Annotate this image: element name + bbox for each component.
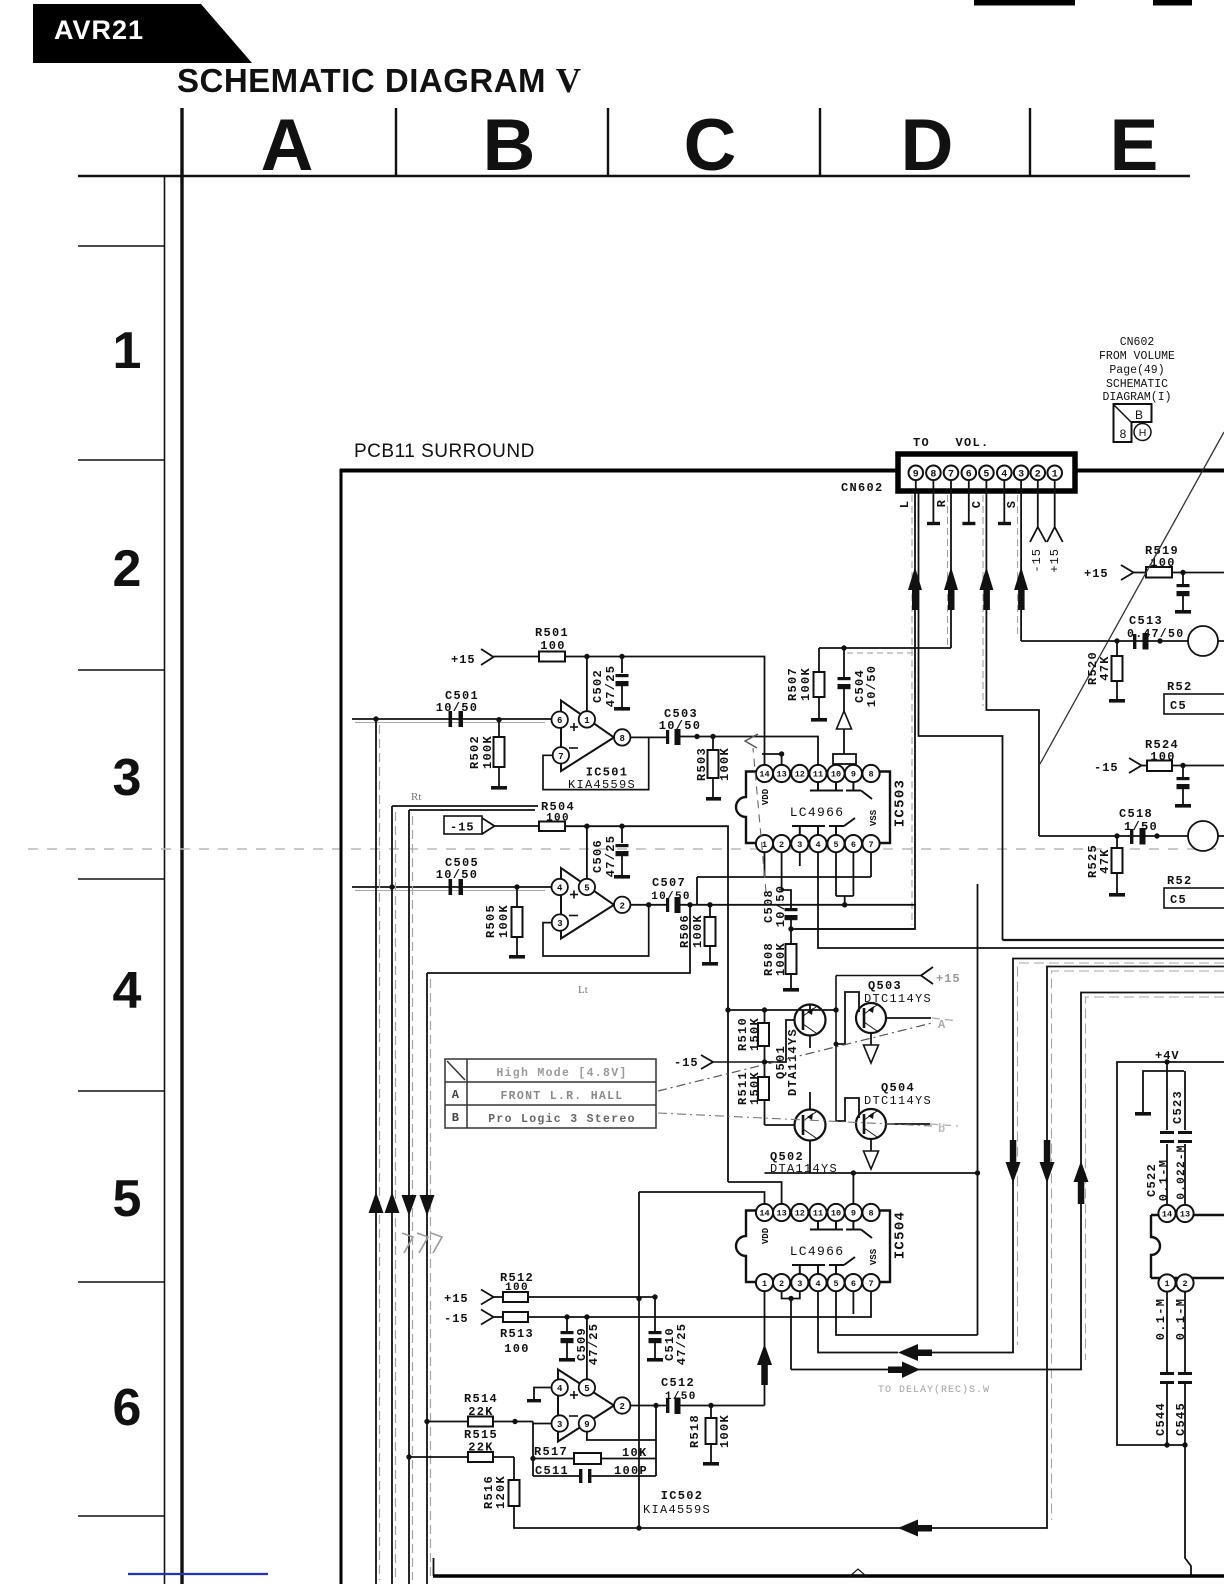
svg-text:100: 100 [1150, 750, 1176, 764]
ground pin 6 [962, 491, 975, 524]
svg-text:IC502: IC502 [661, 1489, 704, 1503]
capacitor C544 [1154, 1292, 1174, 1446]
IC504 body [736, 1211, 890, 1283]
arrow up trunk2 [385, 1192, 400, 1213]
svg-text:10/50: 10/50 [436, 701, 479, 715]
svg-text:-15: -15 [1094, 761, 1119, 775]
pin3 stub [791, 1292, 800, 1299]
transistor Q502 [765, 1092, 826, 1173]
svg-text:100: 100 [540, 639, 566, 653]
feedback box IC501 [543, 737, 649, 789]
resistor R516 [482, 1457, 520, 1509]
IC503 body [736, 772, 890, 844]
feedback box IC501 unit2 [543, 905, 649, 956]
leader open arrowhead [745, 734, 758, 748]
svg-text:C511: C511 [535, 1464, 569, 1478]
-15 feed fork [701, 1055, 713, 1069]
node [619, 654, 624, 659]
svg-text:A: A [452, 1088, 461, 1102]
ghost trunk 2 [395, 812, 397, 1580]
output wire pin8 [630, 736, 666, 738]
svg-text:6: 6 [113, 1379, 142, 1437]
ghost wire R input [355, 890, 545, 892]
resistor R515 [406, 1428, 514, 1462]
node [841, 645, 846, 650]
pin2 jog to W3 [782, 1292, 791, 1370]
wire [494, 1296, 504, 1298]
svg-text:-15: -15 [674, 1056, 699, 1070]
wire pin5 C down [986, 491, 1039, 836]
svg-text:R518: R518 [688, 1414, 702, 1448]
arrow W2 left [898, 1520, 932, 1537]
svg-text:2: 2 [779, 1279, 784, 1289]
svg-text:VSS: VSS [869, 1248, 879, 1265]
node [636, 1296, 641, 1301]
arrow W1 down [1006, 1140, 1021, 1183]
wire C512 to IC504 pin1 [681, 1292, 765, 1406]
row tick 2/3 [78, 669, 164, 671]
svg-text:9: 9 [851, 1209, 856, 1219]
svg-text:8: 8 [868, 1209, 873, 1219]
capacitor C504 [838, 648, 880, 711]
node [788, 1296, 793, 1301]
svg-text:5: 5 [983, 470, 989, 481]
svg-text:11: 11 [813, 1209, 823, 1219]
C520 partial box [1164, 888, 1224, 908]
svg-text:1: 1 [1052, 470, 1058, 481]
svg-text:FROM VOLUME: FROM VOLUME [1099, 350, 1175, 363]
svg-text:14: 14 [759, 770, 769, 780]
node [636, 1525, 641, 1530]
Q503 collector dashes [932, 1018, 958, 1021]
output wire pin2 [630, 1405, 666, 1407]
capacitor C518 [1130, 828, 1146, 845]
signal arrow R [944, 567, 958, 610]
svg-text:6: 6 [966, 470, 972, 481]
svg-text:0.1-M: 0.1-M [1174, 1298, 1188, 1341]
svg-text:Q503: Q503 [868, 979, 902, 993]
capacitor C519 [1175, 766, 1191, 808]
model banner AVR21 [33, 4, 252, 63]
svg-text:AVR21: AVR21 [54, 15, 144, 45]
node [975, 1170, 980, 1175]
svg-text:47K: 47K [1098, 848, 1112, 874]
wire to pin13 [728, 1182, 782, 1204]
svg-text:IC503: IC503 [893, 779, 909, 828]
svg-text:C502: C502 [591, 669, 605, 703]
pin5 pin6 tie [836, 852, 853, 905]
svg-text:47/25: 47/25 [587, 1323, 601, 1366]
svg-text:R514: R514 [464, 1392, 498, 1406]
node [1180, 570, 1185, 575]
node [646, 902, 651, 907]
svg-text:PCB11 SURROUND: PCB11 SURROUND [354, 441, 535, 462]
capacitor C510 [647, 1297, 689, 1365]
resistor R505 [484, 884, 525, 958]
svg-text:3: 3 [557, 1420, 562, 1430]
svg-text:6: 6 [557, 716, 562, 726]
IC503 bottom pins [756, 835, 880, 852]
capacitor C509 [559, 1317, 601, 1365]
svg-text:7: 7 [558, 752, 563, 762]
resistor R507 [786, 648, 827, 722]
+15 fork [921, 967, 933, 984]
arrow W2 down [1040, 1140, 1055, 1183]
svg-text:9: 9 [913, 470, 919, 481]
-15 fork [481, 1310, 494, 1325]
svg-text:12: 12 [795, 1209, 805, 1219]
svg-text:22K: 22K [468, 1441, 494, 1455]
wire right trunk [977, 884, 979, 1335]
connector pins 9..1 [909, 466, 1062, 481]
vertical trunk wire 2 [391, 806, 393, 1584]
svg-text:150K: 150K [748, 1071, 762, 1105]
resistor R518 [688, 1406, 732, 1466]
Q504 collector dashes [930, 1124, 958, 1126]
svg-text:VDD: VDD [761, 788, 771, 805]
svg-text:100K: 100K [691, 914, 705, 948]
op-amp IC501 unit1 [552, 701, 631, 772]
svg-text:R502: R502 [468, 735, 482, 769]
arrow W1 left [898, 1344, 932, 1361]
svg-text:8: 8 [619, 734, 624, 744]
blue pen mark bottom left [128, 1573, 268, 1575]
pin1 riser [586, 657, 588, 712]
+15 wire [836, 975, 921, 977]
Q504 emitter arrow [864, 1151, 879, 1169]
arrow down trunk4 [420, 1195, 435, 1216]
transistor Q504 [836, 1098, 930, 1151]
svg-text:5: 5 [833, 1279, 838, 1289]
vertical trunk wire 1 [375, 719, 377, 1584]
capacitor C505 [436, 856, 479, 895]
node [584, 824, 589, 829]
connector CN602 body [898, 454, 1075, 491]
svg-text:D: D [901, 105, 954, 186]
svg-text:E: E [1110, 105, 1159, 186]
+15 supply fork [481, 649, 494, 665]
sheet reference symbol B/8/H [1114, 404, 1152, 442]
capacitor C502 [591, 657, 630, 711]
svg-text:1: 1 [762, 840, 767, 850]
svg-text:FRONT L.R. HALL: FRONT L.R. HALL [500, 1090, 623, 1103]
svg-text:4: 4 [557, 1384, 563, 1394]
pin3 wire [533, 1423, 552, 1425]
wire C508 junction left [791, 928, 914, 930]
svg-text:R507: R507 [786, 667, 800, 701]
row tick 6 bottom [78, 1515, 164, 1517]
pin13 top jog [762, 754, 782, 765]
svg-text:A: A [261, 105, 314, 186]
svg-text:10: 10 [831, 1209, 841, 1219]
svg-text:1: 1 [113, 322, 142, 380]
IC505 top pins [1158, 1205, 1193, 1222]
signal arrow L [908, 567, 922, 610]
svg-text:2: 2 [1182, 1279, 1187, 1289]
svg-text:9: 9 [851, 770, 856, 780]
wire [1134, 572, 1147, 574]
node [762, 1007, 767, 1012]
bottom rail stub [433, 1558, 435, 1576]
bundle wire b [409, 809, 535, 811]
svg-text:DTA114YS: DTA114YS [786, 1028, 800, 1096]
svg-text:14: 14 [759, 1209, 769, 1219]
capacitor C512 [661, 1376, 697, 1414]
column tick C/D [819, 108, 821, 176]
supply fork pin 2 (-15) [1030, 491, 1046, 542]
switch box [833, 754, 856, 764]
vertical trunk wire 4 [426, 973, 428, 1584]
svg-text:C523: C523 [1171, 1090, 1185, 1124]
node [653, 1403, 658, 1408]
svg-text:5: 5 [833, 840, 838, 850]
node [725, 1007, 730, 1012]
transistor Q503 [836, 992, 931, 1045]
wire [494, 656, 540, 658]
svg-text:R52: R52 [1167, 680, 1193, 694]
pin3 stub [799, 852, 801, 866]
resistor R517 [530, 1445, 656, 1464]
arrow W3 right [888, 1362, 920, 1379]
node [710, 734, 715, 739]
svg-text:10/50: 10/50 [659, 719, 702, 733]
svg-text:1: 1 [1164, 1279, 1169, 1289]
feedback loop wire to trunk4 [427, 905, 690, 973]
leader to switch dashes [753, 748, 766, 892]
capacitor C511 [533, 1464, 656, 1483]
svg-text:2: 2 [619, 901, 624, 911]
wire S rail [1021, 640, 1224, 642]
svg-text:100K: 100K [799, 667, 813, 701]
row tick 1 top [78, 245, 164, 247]
wire pin3 S down [1020, 491, 1022, 641]
C515 partial box [1164, 694, 1224, 714]
scan mark top edge [974, 0, 1075, 6]
pin4 wire to right bus [818, 852, 1224, 948]
svg-text:100K: 100K [481, 735, 495, 769]
wire [1172, 572, 1224, 574]
svg-text:10K: 10K [622, 1446, 648, 1460]
-15 fork [1129, 758, 1142, 773]
node [834, 1042, 839, 1047]
svg-text:TO VOL.: TO VOL. [913, 436, 990, 450]
svg-text:100P: 100P [614, 1464, 648, 1478]
svg-text:2: 2 [779, 840, 784, 850]
ghost line pin3 [1017, 495, 1019, 638]
wire trunk x639 [638, 1192, 640, 1528]
svg-text:SCHEMATIC: SCHEMATIC [1106, 378, 1168, 391]
pin4 ground [527, 1388, 552, 1403]
svg-text:LC4966: LC4966 [790, 805, 845, 820]
resistor R520 [1086, 641, 1125, 703]
svg-text:C518: C518 [1119, 807, 1153, 821]
svg-text:47/25: 47/25 [675, 1323, 689, 1366]
wire R input [352, 886, 552, 888]
base trunk riser [835, 976, 837, 1122]
svg-text:12: 12 [795, 770, 805, 780]
arrow up trunk1 [369, 1192, 384, 1213]
svg-text:10/50: 10/50 [651, 891, 691, 903]
pin numbers [557, 884, 625, 930]
svg-text:100K: 100K [718, 1414, 732, 1448]
capacitor C522 wire [1166, 1062, 1168, 1206]
supply fork pin 1 (+15) [1047, 491, 1063, 542]
ghost dash rail [847, 652, 918, 654]
svg-text:4: 4 [557, 884, 563, 894]
svg-text:TO DELAY(REC)S.W: TO DELAY(REC)S.W [878, 1384, 990, 1396]
wire R507/C504 rail [819, 647, 951, 649]
node [1182, 1442, 1187, 1447]
left frame thick line [180, 108, 183, 1584]
signal arrow S [1014, 567, 1028, 610]
wire W2 loop [514, 967, 1224, 1529]
svg-text:+15: +15 [1048, 548, 1062, 573]
svg-text:47K: 47K [1098, 655, 1112, 681]
pin numbers [557, 1384, 625, 1430]
capacitor C503 [659, 707, 702, 745]
output wire pin2 [630, 904, 666, 906]
resistor R502 [468, 717, 507, 790]
svg-text:1: 1 [762, 1279, 767, 1289]
svg-text:100K: 100K [774, 942, 788, 976]
node [1157, 638, 1162, 643]
svg-text:7: 7 [868, 840, 873, 850]
arrow down trunk3 [402, 1195, 417, 1216]
column tick D/E [1029, 108, 1031, 176]
svg-text:H: H [1139, 427, 1147, 439]
ground hook [1135, 1071, 1184, 1116]
node [373, 716, 378, 721]
internal switch marks [792, 782, 872, 834]
svg-text:4: 4 [113, 962, 142, 1020]
svg-text:C545: C545 [1174, 1402, 1188, 1436]
svg-text:DIAGRAM(I): DIAGRAM(I) [1102, 391, 1171, 404]
ghost W1 [1018, 963, 1224, 1345]
wire C507 onward [681, 904, 917, 906]
ghost wire L input [355, 722, 545, 724]
enclosure box [765, 1172, 978, 1174]
svg-text:3: 3 [557, 919, 562, 929]
wire L return [1003, 939, 1224, 941]
wire R504 to x728 trunk [565, 826, 728, 1182]
board outline left edge [340, 469, 343, 1584]
ground pin 8 [927, 491, 940, 524]
bottom rail mark [850, 1569, 866, 1576]
resistor R506 [678, 905, 718, 966]
svg-text:R505: R505 [484, 904, 498, 938]
signal arrow C [979, 567, 993, 610]
svg-text:6: 6 [851, 840, 856, 850]
svg-text:B: B [452, 1111, 461, 1125]
svg-text:13: 13 [776, 770, 786, 780]
svg-text:C513: C513 [1129, 614, 1163, 628]
feedback node wire [532, 1422, 534, 1477]
svg-text:10: 10 [831, 770, 841, 780]
C523 plates [1178, 1131, 1192, 1143]
IC503 top pins [756, 765, 880, 782]
mode table [445, 1059, 656, 1128]
capacitor C523 wire [1184, 1071, 1186, 1206]
node [762, 1059, 767, 1064]
resistor R511 [736, 1071, 769, 1125]
capacitor C545 [1174, 1292, 1192, 1446]
edge connector circle [1188, 626, 1218, 656]
wire pin7 R down [950, 491, 952, 648]
capacitor C508 [762, 852, 798, 929]
svg-text:B: B [483, 105, 536, 186]
edge connector circle [1188, 821, 1218, 851]
Q503 emitter arrow [864, 1045, 879, 1063]
resistor R508 [762, 929, 799, 992]
svg-text:C5: C5 [1170, 893, 1187, 907]
ghost W3 [1086, 997, 1224, 1360]
svg-text:LC4966: LC4966 [790, 1244, 845, 1259]
svg-text:C: C [970, 500, 984, 508]
svg-text:100: 100 [505, 1282, 529, 1294]
svg-text:C: C [684, 105, 737, 186]
svg-text:13: 13 [776, 1209, 786, 1219]
resistor R501 [535, 626, 569, 662]
svg-text:8: 8 [1120, 427, 1127, 441]
node [707, 902, 712, 907]
svg-text:0.022-M: 0.022-M [1176, 1144, 1188, 1199]
pin1 riser [764, 852, 766, 877]
svg-text:100K: 100K [718, 747, 732, 781]
svg-text:8: 8 [930, 470, 936, 481]
svg-text:150K: 150K [748, 1017, 762, 1051]
resistor R503 [695, 737, 732, 801]
svg-text:B: B [1135, 408, 1143, 422]
svg-text:47/25: 47/25 [604, 665, 618, 708]
reference note CN602 FROM VOLUME [1099, 336, 1175, 404]
svg-text:9: 9 [584, 1420, 589, 1430]
node [833, 1007, 838, 1012]
svg-text:1: 1 [584, 716, 590, 726]
IC504 bottom pins [756, 1274, 880, 1291]
wire W3 out [791, 993, 1224, 1370]
svg-text:4: 4 [815, 1279, 820, 1289]
pin6 riser [852, 1292, 854, 1315]
+15 fork [1121, 565, 1134, 580]
resistor R510 [736, 1010, 769, 1077]
svg-text:5: 5 [113, 1170, 142, 1228]
vertical trunk wire 3 [408, 810, 410, 1584]
node [564, 1314, 569, 1319]
ghost line pin9 [911, 495, 913, 925]
wire to pin14 [639, 1192, 765, 1204]
leader line A [658, 1023, 932, 1091]
svg-text:3: 3 [1018, 470, 1024, 481]
wire -15 rail to pin7 [528, 1292, 871, 1318]
svg-text:IC504: IC504 [893, 1211, 909, 1260]
IC504 top pins [756, 1204, 880, 1221]
resistor R513 [500, 1312, 534, 1356]
svg-text:10/50: 10/50 [436, 868, 479, 882]
svg-text:L: L [898, 500, 912, 508]
node [694, 734, 699, 739]
arrow W3 up [1074, 1161, 1089, 1204]
node [389, 884, 394, 889]
op-amp IC501 unit2 [552, 868, 631, 939]
pin numbers [557, 716, 625, 762]
-15 supply boxed label [444, 816, 482, 835]
svg-text:DTC114YS: DTC114YS [864, 992, 932, 1006]
svg-text:+15: +15 [451, 653, 476, 667]
svg-text:4: 4 [815, 840, 820, 850]
svg-text:3: 3 [797, 840, 802, 850]
pin9 riser [852, 1173, 854, 1204]
svg-text:0.1-M: 0.1-M [1157, 1159, 1171, 1202]
